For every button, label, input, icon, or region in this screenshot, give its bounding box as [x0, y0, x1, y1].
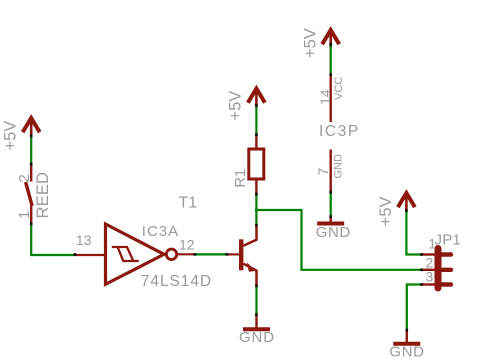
svg-text:IC3A: IC3A	[142, 223, 179, 240]
transistor T1 base pin	[227, 253, 239, 255]
JP1 pin 1 stub	[442, 252, 452, 256]
svg-text:JP1: JP1	[435, 231, 461, 248]
connector JP1 pin 2 lead	[422, 269, 435, 271]
junction at R1/collector node	[255, 208, 258, 211]
wire node to JP1 pin2 (down and right)	[256, 210, 421, 270]
inverter output pin	[178, 253, 195, 255]
JP1 pin 3 stub	[442, 282, 452, 286]
svg-text:REED: REED	[34, 172, 52, 219]
reed switch S pin 2	[30, 165, 32, 182]
svg-text:GND: GND	[239, 329, 275, 346]
JP1 pin 2 stub	[442, 268, 452, 272]
transistor T1 emitter	[243, 264, 256, 286]
supply +5V arrow (JP1)	[398, 193, 415, 211]
connector JP1 pin 1 lead	[422, 253, 435, 255]
supply +5V arrow (IC3P VCC)	[322, 30, 339, 48]
IC3P VCC pin 14	[330, 75, 332, 123]
wire T1 emitter to GND	[255, 286, 257, 315]
ground symbol below T1	[255, 315, 257, 328]
wire R1 to T1 collector with branch	[255, 194, 257, 225]
wire inverter output to T1 base	[195, 253, 227, 255]
svg-text:GND: GND	[333, 154, 345, 179]
wire REED pin1 down and right to inverter input	[31, 224, 75, 256]
svg-text:13: 13	[76, 232, 92, 248]
inverter output bubble	[166, 249, 176, 259]
svg-text:VCC: VCC	[333, 77, 345, 100]
supply +5V arrow (left, above REED)	[23, 118, 40, 136]
svg-text:12: 12	[179, 237, 195, 253]
wire JP1 pin3 to GND (left and down)	[407, 285, 422, 331]
resistor R1 pin top	[255, 135, 257, 150]
resistor R1 body	[249, 149, 264, 179]
wire +5V down and right to JP1 pin1	[406, 211, 421, 255]
wire +5V to REED pin2	[30, 136, 32, 165]
wire IC3P pin7 to GND	[330, 192, 332, 217]
svg-text:GND: GND	[316, 224, 351, 241]
svg-text:T1: T1	[179, 195, 198, 212]
supply +5V arrow (above R1)	[248, 89, 265, 107]
transistor T1 collector	[243, 225, 256, 246]
svg-text:7: 7	[315, 168, 331, 176]
svg-text:74LS14D: 74LS14D	[141, 273, 212, 290]
inverter input pin	[75, 254, 106, 256]
reed switch pin 1	[30, 206, 32, 224]
ground symbol below JP1	[406, 330, 408, 342]
svg-text:1: 1	[428, 236, 436, 252]
svg-text:+5V: +5V	[302, 28, 320, 58]
svg-text:R1: R1	[233, 169, 249, 188]
svg-text:2: 2	[16, 174, 33, 182]
svg-text:14: 14	[317, 89, 333, 105]
op-amp/inverter IC3A triangle	[106, 224, 165, 284]
svg-text:3: 3	[426, 268, 434, 284]
connector JP1 pin 3 lead	[422, 283, 435, 285]
svg-text:GND: GND	[389, 343, 424, 360]
emitter arrowhead	[247, 262, 256, 271]
wire +5V to R1	[255, 106, 257, 135]
svg-text:IC3P: IC3P	[319, 123, 360, 140]
schmitt hysteresis glyph	[112, 247, 139, 261]
IC3P GND pin 7	[330, 150, 332, 193]
svg-text:1: 1	[16, 211, 33, 219]
resistor R1 pin bottom	[255, 179, 257, 194]
svg-text:+5V: +5V	[377, 196, 395, 226]
transistor T1 base bar	[239, 239, 243, 270]
connector JP1 body bar	[435, 249, 442, 289]
svg-text:+5V: +5V	[227, 91, 245, 121]
junction ticks (net endpoints)	[30, 43, 423, 331]
svg-text:+5V: +5V	[1, 121, 19, 151]
ground symbol below IC3P	[330, 217, 332, 223]
wire +5V to IC3P VCC pin	[330, 46, 332, 75]
reed switch blade	[26, 182, 32, 206]
